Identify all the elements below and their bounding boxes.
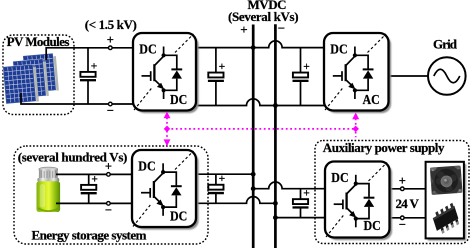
IGBT gate lead	[334, 203, 343, 205]
wire collector stub	[354, 47, 356, 56]
junction dot aux feed on positive bus	[251, 186, 256, 191]
svg-text:−: −	[399, 217, 406, 231]
converter DC/DC 2 (ESS) box	[132, 150, 196, 227]
node emitter junction	[354, 217, 358, 221]
capacitor C6	[300, 189, 302, 199]
wire aux feed from positive bus with hop over negative bus	[253, 182, 325, 189]
converter DC/DC 2 (ESS) diagonal bottom-left	[133, 204, 152, 227]
converter DC/AC (grid) diagonal bottom-left	[325, 87, 344, 110]
junction dot top rail on positive bus	[251, 45, 256, 50]
loads box shadow	[428, 164, 466, 241]
diode triangle	[171, 187, 181, 195]
PV Modules dashed box	[3, 35, 74, 115]
svg-text:AC: AC	[363, 92, 380, 107]
svg-text:+: +	[399, 174, 406, 188]
node PV -	[109, 102, 113, 106]
node ESS -	[107, 202, 111, 206]
converter DC/AC (grid) diagonal top-right	[368, 34, 387, 53]
capacitor C4	[88, 174, 90, 185]
svg-text:Energy storage system: Energy storage system	[32, 228, 147, 243]
wire ESS top rail to positive bus	[196, 173, 253, 175]
grid AC source circle	[428, 57, 466, 95]
svg-text:+: +	[219, 61, 226, 73]
loads box	[426, 162, 464, 239]
svg-text:24 V: 24 V	[395, 196, 419, 211]
svg-text:−: −	[105, 203, 112, 217]
wire battery bottom to converter	[56, 202, 132, 204]
IGBT body bar	[345, 193, 347, 210]
svg-text:DC: DC	[170, 208, 187, 223]
converter DC/DC 1 (PV) shadow	[136, 36, 199, 114]
junction dot ESS bottom rail on negative bus	[273, 201, 278, 206]
node collector junction	[162, 53, 166, 57]
magenta control arrow PV converter to ESS converter	[166, 118, 168, 141]
svg-text:(Several kVs): (Several kVs)	[228, 9, 299, 24]
node collector junction	[161, 170, 165, 174]
IGBT gate lead	[142, 75, 151, 77]
IGBT collector lead	[346, 56, 355, 65]
wire from diode bottom	[356, 207, 369, 219]
wire bottom rail box1 to box3 with hop over positive bus	[196, 99, 324, 106]
wire collector stub	[163, 47, 165, 56]
wire collector stub	[355, 175, 357, 184]
PV panel middle	[13, 58, 49, 99]
IGBT gate bar	[149, 188, 151, 198]
IGBT collector lead	[154, 173, 163, 182]
junction dot bottom rail on negative bus	[273, 103, 278, 108]
svg-text:DC: DC	[364, 218, 381, 233]
PV panel back	[23, 53, 59, 94]
converter DC/DC 1 (PV) diagonal top-right	[175, 34, 194, 53]
node collector junction	[353, 53, 357, 57]
diode cathode bar	[364, 197, 375, 199]
IGBT gate bar	[342, 200, 344, 210]
svg-text:(several hundred Vs): (several hundred Vs)	[18, 149, 128, 164]
converter DC/DC 1 (PV) diagonal bottom-left	[134, 87, 153, 110]
wire from diode bottom	[355, 79, 368, 91]
svg-text:+: +	[219, 173, 226, 185]
diode cathode bar	[171, 68, 182, 70]
magenta junction diamond left	[164, 126, 171, 133]
MVDC bus positive line	[252, 25, 255, 248]
converter DC/DC aux shadow	[328, 164, 393, 240]
wire DC/AC to grid	[389, 75, 428, 77]
wire from diode bottom	[164, 79, 177, 91]
wire PV top to node	[46, 48, 133, 60]
capacitor C2	[215, 48, 217, 73]
node emitter junction	[353, 88, 357, 92]
wire aux out bottom	[390, 217, 426, 219]
Auxiliary power supply dashed box	[315, 141, 469, 244]
magenta control horizontal link	[167, 128, 356, 130]
node emitter junction	[161, 205, 165, 209]
svg-text:+: +	[240, 22, 247, 37]
converter DC/DC aux box	[325, 162, 390, 238]
node PV +	[109, 46, 113, 50]
IGBT emitter lead with arrow	[154, 80, 160, 86]
converter DC/DC 1 (PV) box	[133, 33, 196, 111]
svg-text:−: −	[107, 104, 114, 118]
IGBT gate lead	[141, 192, 150, 194]
converter DC/DC aux diagonal top-right	[369, 163, 388, 182]
IGBT gate lead	[333, 75, 342, 77]
wire emitter stub	[162, 207, 164, 216]
diode cathode bar	[171, 185, 182, 187]
magenta junction diamond right	[352, 126, 359, 133]
IGBT body bar	[153, 181, 155, 198]
chip icon	[429, 203, 464, 236]
converter DC/DC aux diagonal bottom-left	[326, 214, 345, 237]
wire PV bottom to node	[21, 93, 133, 104]
svg-text:DC: DC	[330, 41, 347, 56]
svg-text:DC: DC	[170, 92, 187, 107]
svg-text:+: +	[303, 61, 310, 73]
wire to diode top	[163, 172, 176, 185]
wire emitter stub	[163, 90, 165, 99]
diode triangle	[364, 199, 374, 207]
svg-text:+: +	[91, 60, 98, 72]
wire aux bottom from negative bus	[275, 217, 325, 219]
wire emitter stub	[355, 219, 357, 228]
IGBT gate bar	[150, 71, 152, 81]
svg-text:DC: DC	[138, 158, 155, 173]
fan icon	[430, 165, 463, 194]
wire to diode top	[356, 184, 369, 197]
diode cathode bar	[363, 68, 374, 70]
IGBT emitter lead with arrow	[346, 80, 352, 86]
wire aux out top	[390, 188, 426, 190]
svg-text:Auxiliary power supply: Auxiliary power supply	[323, 140, 445, 155]
converter DC/AC (grid) shadow	[327, 36, 392, 114]
IGBT collector lead	[154, 56, 163, 65]
node aux +	[401, 187, 405, 191]
magenta control arrow to DC/AC converter	[355, 119, 357, 138]
junction dot aux bottom on negative bus	[273, 215, 278, 220]
grid sine wave	[434, 69, 460, 83]
wire emitter stub	[354, 90, 356, 99]
PV panel front	[3, 64, 39, 105]
svg-text:+: +	[107, 33, 114, 47]
converter DC/DC 2 (ESS) diagonal top-right	[175, 151, 194, 170]
svg-text:(< 1.5 kV): (< 1.5 kV)	[85, 17, 137, 32]
wire collector stub	[162, 163, 164, 172]
battery icon	[37, 167, 61, 212]
converter DC/AC (grid) box	[324, 33, 389, 111]
svg-text:−: −	[278, 21, 285, 36]
svg-text:Grid: Grid	[433, 36, 458, 51]
svg-text:+: +	[303, 188, 310, 200]
svg-text:PV Modules: PV Modules	[7, 34, 70, 49]
IGBT body bar	[153, 64, 155, 81]
wire top rail box1 to box3 with hop over negative bus	[196, 41, 324, 48]
IGBT emitter lead with arrow	[154, 196, 160, 202]
wire to diode top	[355, 55, 368, 68]
diode triangle	[172, 70, 182, 78]
svg-text:DC: DC	[139, 41, 156, 56]
wire from diode bottom	[163, 195, 176, 207]
MVDC bus negative line	[274, 24, 277, 248]
IGBT emitter lead with arrow	[347, 208, 353, 214]
svg-text:+: +	[91, 173, 98, 185]
node aux -	[401, 216, 405, 220]
diode triangle	[363, 70, 373, 78]
Energy storage system dashed box	[14, 146, 208, 244]
IGBT gate bar	[341, 71, 343, 81]
node ESS +	[107, 173, 111, 177]
wire ESS bottom rail hop over positive bus to negative bus	[196, 197, 275, 204]
wire to diode top	[164, 55, 177, 68]
junction dot ESS top rail	[251, 172, 256, 177]
IGBT collector lead	[347, 185, 356, 194]
node collector junction	[354, 182, 358, 186]
capacitor C5	[215, 174, 217, 185]
converter DC/DC 2 (ESS) shadow	[135, 153, 199, 230]
capacitor C1	[87, 48, 89, 72]
capacitor C3	[300, 48, 302, 73]
node emitter junction	[162, 88, 166, 92]
wire battery top to converter	[56, 173, 132, 175]
IGBT body bar	[345, 64, 347, 81]
svg-text:DC: DC	[331, 170, 348, 185]
